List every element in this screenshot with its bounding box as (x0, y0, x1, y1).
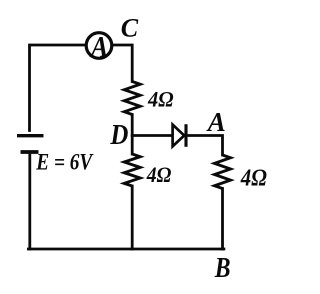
ammeter A1 circle (86, 33, 112, 59)
wire diode cathode to right corner down to resistor R3 (187, 136, 222, 156)
wire top-right segment down to resistor (113, 45, 132, 82)
diode D1 cathode bar (184, 124, 187, 147)
diode D1 triangle (anode at D side) (173, 125, 185, 147)
svg-text:D: D (110, 120, 129, 151)
resistor R2 4ohm between D and bottom wire (124, 154, 140, 186)
svg-text:4Ω: 4Ω (147, 87, 174, 112)
wire bottom (28, 248, 224, 251)
wire top-left segment with left corner (30, 45, 86, 131)
svg-text:A: A (89, 29, 108, 64)
wire D to diode anode (132, 134, 172, 137)
svg-text:4Ω: 4Ω (240, 166, 267, 192)
svg-text:C: C (121, 14, 139, 43)
wire middle lower segment (R2 to bottom) (131, 186, 134, 249)
wire node C branch: resistor R1 to D junction and on to R2 (131, 115, 134, 155)
svg-text:B: B (214, 252, 231, 284)
svg-text:E = 6V: E = 6V (35, 149, 93, 174)
battery E top plate (positive, long) (17, 134, 44, 137)
wire right lower segment (R3 to node B) (221, 189, 224, 250)
svg-text:4Ω: 4Ω (146, 162, 172, 187)
resistor R1 4ohm between C and D (124, 82, 140, 115)
battery E bottom plate (negative, short thick) (21, 150, 39, 154)
resistor R3 4ohm between A and B (215, 155, 231, 189)
wire left lower segment (battery to bottom) (28, 155, 31, 249)
svg-text:A: A (206, 107, 226, 137)
